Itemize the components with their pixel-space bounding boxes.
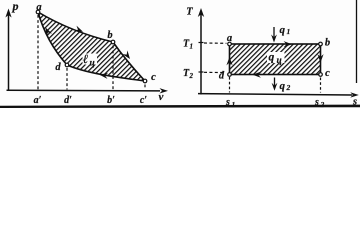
arrow on isotherm a-b — [74, 26, 84, 35]
svg-text:q: q — [280, 80, 286, 92]
label s2 — [314, 97, 325, 109]
label s1 — [225, 97, 235, 109]
svg-text:T: T — [186, 7, 193, 18]
tick T1 — [199, 42, 204, 44]
svg-text:b: b — [107, 30, 112, 41]
carnot cycle abcd (hatched, p-v) — [38, 12, 145, 81]
axis p (vertical, left diagram) — [5, 9, 11, 92]
node b (p-v) — [111, 40, 115, 44]
svg-text:d: d — [55, 62, 61, 73]
dashed drop from b to b' — [112, 46, 114, 90]
svg-text:v: v — [159, 91, 164, 103]
svg-text:q: q — [269, 52, 275, 64]
arrow on b-c (right edge, down) — [317, 54, 323, 62]
svg-text:ц: ц — [277, 56, 282, 66]
rectangle abcd (hatched, T-s) — [230, 44, 321, 75]
node c (p-v) — [143, 79, 147, 83]
dashed drop from c to c' — [144, 85, 146, 90]
node b (T-s) — [319, 42, 323, 46]
label T2 — [183, 68, 194, 80]
dashed drop from c to s2 — [320, 78, 322, 93]
svg-text:a: a — [227, 33, 232, 44]
axis s (horizontal, right diagram) — [198, 92, 359, 97]
svg-text:b′: b′ — [107, 95, 115, 106]
svg-text:d′: d′ — [64, 95, 72, 106]
svg-text:c: c — [151, 72, 156, 83]
page rule (bottom border) — [0, 105, 360, 108]
dashed drop from d to d' — [66, 68, 68, 90]
svg-text:2: 2 — [189, 72, 194, 80]
svg-text:q: q — [280, 24, 286, 36]
node d (T-s) — [228, 73, 232, 77]
svg-text:b: b — [325, 38, 330, 49]
arrow on isotherm c-d — [99, 72, 108, 79]
node d (p-v) — [65, 63, 69, 67]
arrow on c-d (bottom edge, left) — [253, 72, 261, 78]
label q2 — [280, 80, 291, 92]
node a (T-s) — [228, 42, 232, 46]
svg-text:ℓ: ℓ — [83, 52, 88, 66]
arrow on adiabat b-c — [122, 50, 132, 60]
svg-text:1: 1 — [287, 27, 291, 36]
svg-text:c′: c′ — [140, 95, 147, 106]
svg-text:a′: a′ — [34, 95, 42, 106]
dashed level T2 to d — [204, 71, 226, 73]
svg-text:ц: ц — [90, 59, 95, 69]
svg-text:p: p — [12, 0, 19, 13]
node a (p-v) — [36, 10, 40, 14]
svg-text:2: 2 — [286, 83, 291, 92]
label T1 — [183, 39, 193, 51]
axis v (horizontal, left diagram) — [7, 88, 169, 93]
svg-text:c: c — [325, 68, 330, 79]
arrow on d-a (left edge, up) — [226, 57, 232, 65]
node c (T-s) — [319, 73, 323, 77]
arrow on adiabat d-a — [43, 26, 52, 36]
svg-text:1: 1 — [190, 43, 194, 51]
svg-text:d: d — [219, 71, 225, 82]
page rule (right vertical border) — [356, 0, 358, 83]
dashed level T1 to a — [204, 42, 227, 44]
svg-text:a: a — [36, 2, 41, 13]
heat output arrow q2 — [272, 78, 278, 91]
tick T2 — [199, 71, 204, 73]
label q1 — [280, 24, 291, 36]
label q_c (heat of cycle) — [267, 52, 285, 66]
heat input arrow q1 — [271, 27, 277, 43]
dashed drop from d to s1 — [229, 77, 231, 93]
axis T (vertical, right diagram) — [198, 8, 204, 95]
arrow on a-b (top edge, right) — [284, 41, 292, 47]
label l_c (work of cycle) — [83, 52, 98, 69]
dashed drop from a to a' — [37, 15, 39, 90]
